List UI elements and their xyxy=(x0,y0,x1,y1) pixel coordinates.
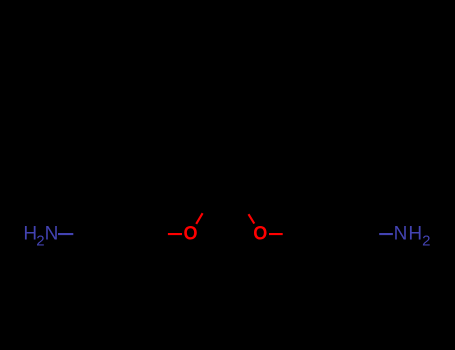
svg-text:O: O xyxy=(183,222,197,244)
svg-text:O: O xyxy=(253,222,267,244)
